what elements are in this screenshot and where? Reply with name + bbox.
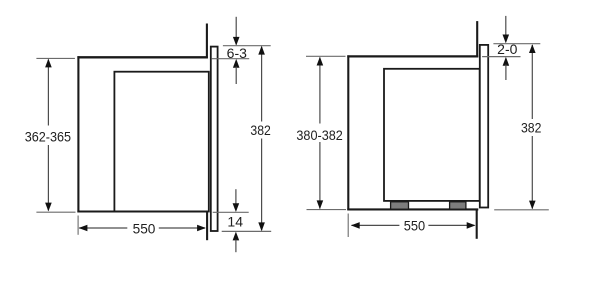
dimension 6-3 bottom line [212,58,250,60]
right wall top segment [476,21,478,57]
svg-text:550: 550 [133,220,156,236]
dimension 2-0 upper arrow [503,16,510,43]
dimension 550 right-diagram label [399,218,428,234]
dimension 550 right-diagram line and arrows [351,222,476,229]
dimension 380-382 line and arrows [317,57,324,210]
dimension 382 left-diagram line and arrows [258,46,265,231]
dimension 550 left-diagram label [127,220,159,236]
dimension 2-0 top line [493,43,540,45]
left cabinet niche outline [77,56,207,212]
dimension 380-382 extension lines [306,56,346,209]
svg-text:550: 550 [404,218,426,234]
dimension 2-0 bottom line [482,56,520,58]
dimension 550 left-diagram line and arrows [79,225,206,232]
dimension 550 right-diagram extension line [347,214,349,238]
right oven foot 2 [450,202,466,209]
dimension 6-3 upper arrow [233,17,240,46]
dimension 362-365 extension lines [36,58,75,212]
dimension 14 / 382 shared bottom line [222,230,272,232]
dimension 382 left-diagram label [249,122,273,139]
dimension 362-365 line and arrows [45,59,52,212]
left door trim box [211,47,218,231]
left wall top segment [206,24,208,59]
svg-text:6-3: 6-3 [227,45,247,61]
svg-text:382: 382 [521,119,542,135]
dimension 2-0 lower arrow [503,57,510,80]
svg-text:2-0: 2-0 [497,41,517,57]
left oven body [114,72,208,212]
dimension 14 upper arrow [233,189,240,212]
right oven body [384,69,480,201]
right cabinet niche outline [347,55,478,210]
dimension 382 right-diagram bottom line [494,209,549,211]
dimension 6-3 top line [223,45,271,47]
svg-text:14: 14 [227,213,243,229]
dimension 550 left-diagram extension line [77,216,79,235]
right door panel box [480,45,488,208]
dimension 382 right-diagram label [520,119,544,136]
dimension 6-3 lower arrow [233,59,240,84]
dimension 14 top line [213,211,249,213]
svg-text:362-365: 362-365 [25,129,72,145]
svg-text:380-382: 380-382 [296,127,343,143]
right oven foot 1 [391,202,409,209]
dimension 382 right-diagram line and arrows [529,44,536,209]
svg-text:382: 382 [250,122,271,138]
right wall bottom segment [476,209,478,239]
dimension 380-382 label [295,124,345,143]
dimension 362-365 label [24,126,74,146]
left wall bottom segment [206,211,208,240]
dimension 14 lower arrow [233,232,240,253]
